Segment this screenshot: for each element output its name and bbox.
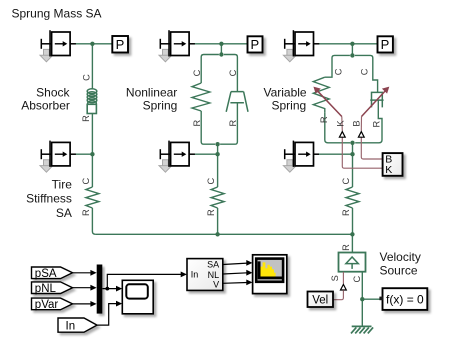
svg-text:NL: NL <box>208 270 220 280</box>
wire PS B line <box>361 137 382 159</box>
svg-text:R: R <box>341 244 351 251</box>
arrowheads into mux <box>90 270 96 307</box>
spring nonlinear col2 <box>192 83 210 111</box>
wire tire col1 lower to bus <box>92 208 95 234</box>
arrowhead into scope input2 <box>116 301 122 307</box>
svg-text:Vel: Vel <box>312 295 328 307</box>
svg-text:pSA: pSA <box>35 268 57 280</box>
svg-text:R: R <box>341 209 351 216</box>
solver block f(x)=0 <box>383 288 428 310</box>
svg-text:R: R <box>81 115 91 122</box>
wire velocity source R <box>351 234 353 252</box>
port triangle K <box>339 132 345 138</box>
wire PS S stub <box>342 272 344 284</box>
scope block <box>122 280 153 314</box>
node mux output <box>105 287 109 291</box>
wire col3 top stub <box>351 44 353 56</box>
subsystem SA NL V <box>187 259 223 291</box>
wire tire spring col2 upper <box>217 154 219 187</box>
mux <box>97 265 103 314</box>
tag pVar <box>32 298 73 311</box>
svg-text:SA: SA <box>56 206 72 220</box>
variable spring arrow <box>313 87 342 131</box>
wire subsystem out SA <box>223 263 247 264</box>
wire col2 top stub <box>220 44 222 55</box>
node col3 loop top <box>350 53 354 57</box>
mass block unsprung col2 <box>159 141 195 173</box>
arrowheads into big scope <box>246 260 252 285</box>
wire col2 bottom stub <box>217 144 219 154</box>
svg-text:C: C <box>81 74 91 81</box>
svg-text:C: C <box>192 69 202 76</box>
svg-text:V: V <box>213 280 219 290</box>
scope3 block with display <box>253 255 287 294</box>
wire row2 col3 <box>319 153 353 155</box>
svg-text:P: P <box>381 37 390 52</box>
svg-text:SA: SA <box>207 259 219 269</box>
wire shock absorber lower <box>91 114 93 155</box>
mass block unsprung col1 <box>40 141 76 173</box>
svg-text:Source: Source <box>380 264 418 278</box>
spring tire stiffness col1 <box>86 187 99 208</box>
svg-text:C: C <box>341 177 351 184</box>
wire row2 col1 <box>76 153 93 155</box>
svg-text:Nonlinear: Nonlinear <box>126 85 177 99</box>
wire row1 col2 to P2 <box>195 43 248 45</box>
node col2 row1 <box>219 42 223 46</box>
svg-text:In: In <box>66 320 76 332</box>
svg-text:R: R <box>319 116 329 123</box>
svg-text:K: K <box>385 164 392 176</box>
nonlinear spring loop frame <box>201 55 237 145</box>
damper variable col3 <box>370 92 383 107</box>
svg-text:C: C <box>81 177 91 184</box>
svg-text:C: C <box>333 68 343 75</box>
wire row1 col1 to P1 <box>76 43 113 45</box>
wire tire spring col1 upper <box>91 154 93 187</box>
svg-text:R: R <box>192 120 202 127</box>
block BK <box>383 153 403 176</box>
svg-text:S: S <box>330 275 340 281</box>
svg-text:Shock: Shock <box>36 85 70 99</box>
wire shock absorber upper <box>91 44 93 90</box>
label Nonlinear Spring <box>126 85 177 112</box>
wire PS K line <box>342 137 382 168</box>
port triangle B <box>358 132 364 138</box>
port labels C R <box>81 68 382 282</box>
svg-text:P: P <box>116 37 125 52</box>
node solver junction <box>360 297 364 301</box>
wire In tag to scope <box>97 304 117 326</box>
port triangle S <box>341 284 347 290</box>
tag Vel <box>308 292 334 308</box>
wire pSA to mux <box>73 273 92 304</box>
shock absorber coil <box>87 89 97 105</box>
node col1 row1 <box>90 42 94 46</box>
spring tire stiffness col2 <box>211 187 224 208</box>
svg-text:Spring: Spring <box>143 99 178 113</box>
node col2 loop bottom <box>215 142 219 146</box>
svg-text:P: P <box>250 37 259 52</box>
svg-text:f(x) = 0: f(x) = 0 <box>386 292 424 306</box>
shock absorber damper body <box>87 104 96 113</box>
wire velocity source C down <box>361 272 363 300</box>
svg-text:R: R <box>371 121 381 128</box>
wire subsystem out V <box>223 282 247 285</box>
svg-text:C: C <box>352 275 362 282</box>
svg-text:Variable: Variable <box>263 85 306 99</box>
ground <box>351 326 373 333</box>
svg-text:Sprung Mass SA: Sprung Mass SA <box>12 6 102 20</box>
wire mux output <box>102 274 181 288</box>
wire col3 bottom stub <box>352 143 354 154</box>
sensor tag P2 <box>248 36 263 52</box>
node col2 bus <box>215 232 219 236</box>
svg-text:pVar: pVar <box>35 299 59 311</box>
svg-text:Tire: Tire <box>52 178 73 192</box>
mass block sprung col2 <box>159 30 195 62</box>
node col2 loop top <box>219 52 223 56</box>
mass block sprung col3 <box>283 30 319 62</box>
svg-text:In: In <box>191 270 199 280</box>
damper nonlinear col2 <box>226 92 248 112</box>
variable damper arrow <box>361 87 389 131</box>
node col2 row2 <box>215 152 219 156</box>
label Tire Stiffness SA <box>26 178 72 220</box>
tag In <box>58 318 97 332</box>
mass block unsprung col3 <box>283 141 319 173</box>
wire tire spring col3 upper <box>352 154 354 187</box>
wire junction to ground <box>361 299 363 326</box>
tag pSA <box>32 267 73 280</box>
tag pNL <box>32 282 73 295</box>
label Variable Spring <box>263 85 306 112</box>
wire subsystem out NL <box>223 273 247 274</box>
svg-text:Stiffness: Stiffness <box>26 191 72 205</box>
node junction dots <box>90 42 364 302</box>
label Shock Absorber <box>21 85 70 112</box>
svg-text:R: R <box>81 209 91 216</box>
spring variable col3 <box>313 77 329 112</box>
arrowhead into subsystem <box>181 272 187 278</box>
wire row1 col3 to P3 <box>319 43 377 45</box>
node col3 row2 <box>350 152 354 156</box>
wire tire col2 lower <box>217 208 219 234</box>
svg-text:Spring: Spring <box>272 99 307 113</box>
node col3 bus <box>350 232 354 236</box>
port solver square <box>379 297 383 301</box>
velocity source U1 <box>339 253 366 272</box>
svg-text:Absorber: Absorber <box>21 99 70 113</box>
svg-text:pNL: pNL <box>35 283 57 295</box>
svg-text:R: R <box>206 209 216 216</box>
wire row2 col2 <box>195 153 218 155</box>
svg-text:C: C <box>228 69 238 76</box>
svg-text:R: R <box>228 120 238 127</box>
node col3 loop bottom <box>350 141 354 145</box>
wire junction to solver <box>362 298 379 300</box>
wire bus <box>95 233 352 235</box>
wire PS Vel line <box>333 290 343 299</box>
variable spring loop frame <box>325 55 382 142</box>
svg-text:B: B <box>352 120 362 126</box>
label Velocity Source <box>380 250 421 278</box>
node col1 row2 <box>90 152 94 156</box>
wire tire col3 lower <box>352 208 354 234</box>
arrowhead into scope input1 <box>116 286 122 292</box>
svg-text:K: K <box>336 120 346 127</box>
sensor tag P3 <box>378 36 393 52</box>
svg-text:Velocity: Velocity <box>380 250 421 264</box>
svg-text:C: C <box>206 177 216 184</box>
sensor tag P1 <box>112 36 128 53</box>
spring tire stiffness col3 <box>346 187 359 208</box>
node col3 row1 <box>350 42 354 46</box>
mass block sprung col1 <box>40 30 76 62</box>
svg-text:C: C <box>360 68 370 75</box>
